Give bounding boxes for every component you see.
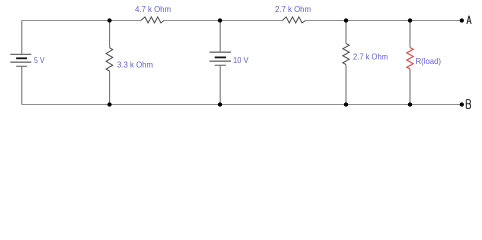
svg-text:5 V: 5 V [34, 55, 45, 65]
svg-text:2.7 k Ohm: 2.7 k Ohm [353, 51, 388, 61]
svg-text:2.7 k Ohm: 2.7 k Ohm [275, 4, 311, 14]
svg-text:10 V: 10 V [233, 55, 249, 65]
svg-text:4.7 k Ohm: 4.7 k Ohm [135, 4, 171, 14]
svg-text:R(load): R(load) [416, 56, 442, 66]
svg-text:3.3 k Ohm: 3.3 k Ohm [117, 59, 153, 69]
